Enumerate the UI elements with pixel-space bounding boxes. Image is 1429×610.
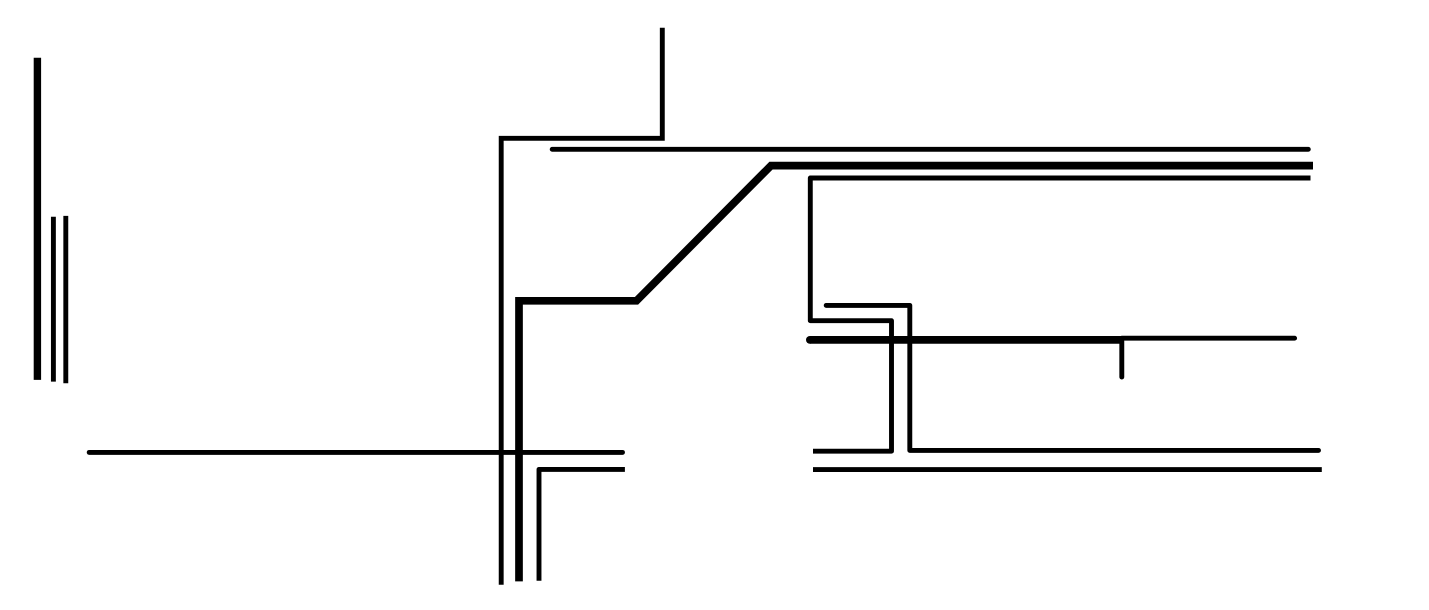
wire thin vertical left pair 1 (51, 217, 56, 382)
wire bottom right long horizontal (813, 467, 1322, 472)
wire bottom left long horizontal (89, 450, 622, 455)
wire short vertical drop at junction (1119, 341, 1124, 377)
wire thin vertical left pair 2 (63, 216, 68, 383)
wire thick stepped polyline with diagonal (519, 166, 1313, 582)
wire right hook polyline (826, 305, 1318, 450)
wire bottom bracket corner (539, 469, 625, 580)
wire thick vertical bus far left (34, 58, 41, 380)
wire top stub down-left-down polyline (501, 28, 662, 585)
wire long thin horizontal upper (552, 147, 1308, 152)
wire rounded cap of thick horizontal (806, 336, 814, 344)
wire thin horizontal continuing thick line (1122, 336, 1295, 341)
wire right C-shaped polyline (810, 178, 1310, 451)
wire thick horizontal mid right (810, 336, 1122, 344)
